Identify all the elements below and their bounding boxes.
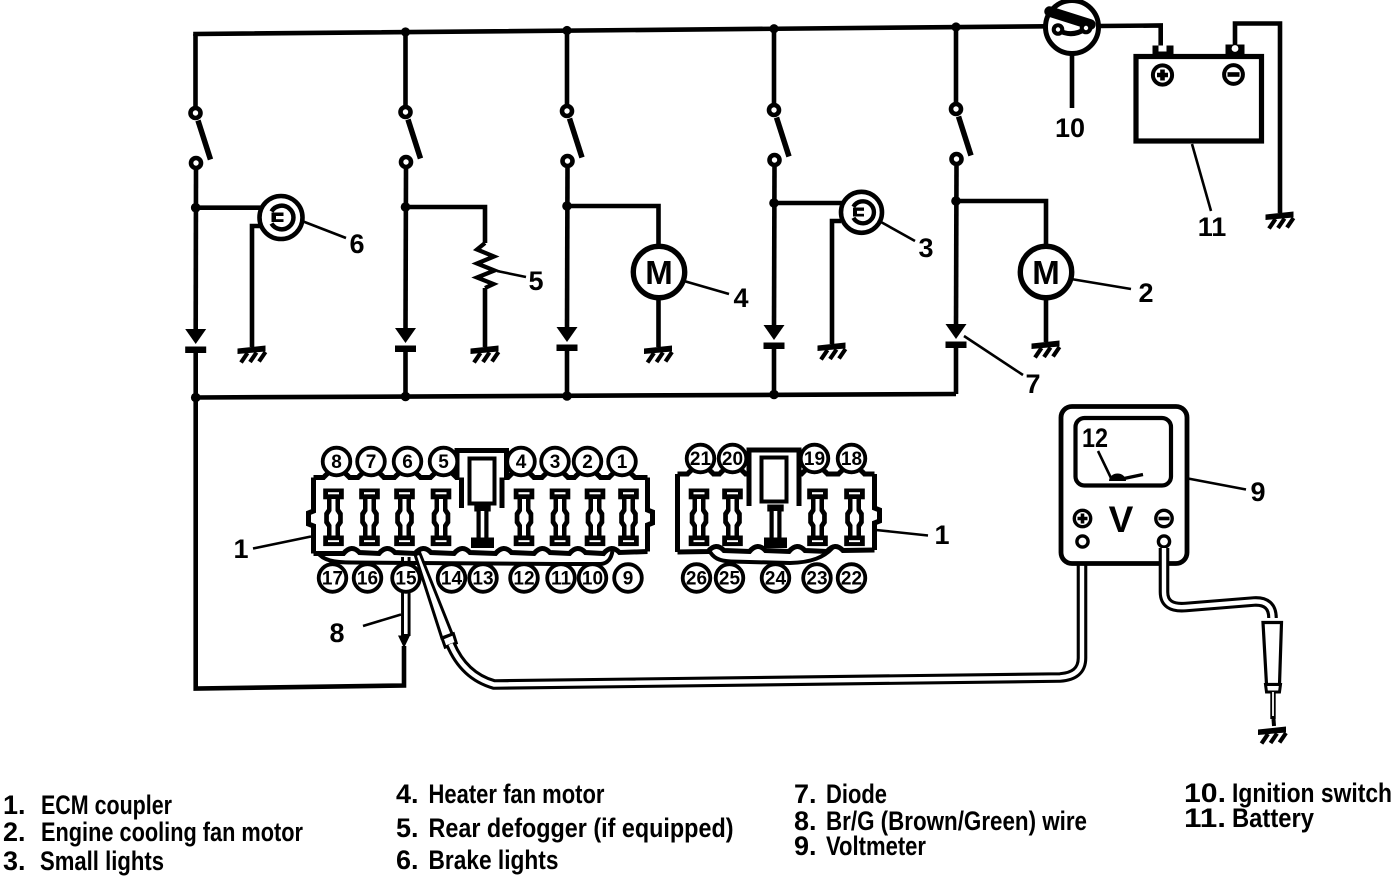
svg-text:5.: 5.: [396, 813, 419, 843]
svg-text:16: 16: [357, 569, 378, 590]
label 11 leader: [1192, 144, 1211, 211]
svg-text:2: 2: [1138, 278, 1153, 308]
svg-text:7: 7: [1025, 369, 1040, 399]
diode D7: [946, 324, 967, 348]
voltmeter body 9: [1061, 407, 1187, 564]
svg-text:M: M: [1032, 254, 1060, 291]
node junction col4: [769, 198, 779, 208]
svg-text:21: 21: [690, 449, 712, 470]
node junction top bus col3: [562, 26, 571, 35]
svg-text:8: 8: [331, 452, 342, 473]
svg-text:14: 14: [441, 569, 463, 590]
svg-text:V: V: [1109, 499, 1134, 540]
pin 3 top A: [541, 448, 569, 476]
connector B keyway inner: [762, 458, 787, 502]
wire bottom bus: [196, 394, 956, 398]
wire col5 switch to junction and diode 7: [954, 166, 959, 327]
wire col4 top drop: [772, 29, 777, 104]
svg-text:8: 8: [329, 618, 344, 648]
svg-text:13: 13: [472, 569, 493, 590]
svg-text:24: 24: [765, 569, 787, 590]
ground lamp 6: [238, 346, 266, 363]
pin 17 bottom A: [319, 564, 347, 592]
svg-text:11: 11: [1198, 212, 1227, 242]
svg-text:25: 25: [719, 569, 741, 590]
svg-text:Battery: Battery: [1232, 803, 1314, 833]
svg-text:10: 10: [582, 569, 603, 590]
ECM coupler connector block B outline: [678, 450, 875, 474]
pin 5 top A: [430, 448, 458, 476]
node bottom bus col1: [191, 393, 201, 403]
node junction top bus col4: [769, 24, 778, 33]
wire battery negative to ground: [1235, 24, 1280, 214]
switch SW2: [398, 105, 420, 170]
node bottom bus col2: [401, 392, 411, 402]
pin 21 top B: [687, 445, 715, 473]
wire junction to motor 4: [567, 206, 659, 247]
svg-text:Brake lights: Brake lights: [429, 845, 559, 875]
label 9 leader: [1188, 479, 1246, 490]
node junction col2: [401, 202, 411, 212]
Br/G wire arrowhead 8: [398, 636, 410, 649]
label 4 leader: [684, 281, 729, 294]
node junction col1: [191, 203, 201, 213]
ground motor 4: [644, 346, 672, 363]
svg-text:1: 1: [934, 520, 949, 550]
diode D3: [557, 327, 578, 351]
wire left drop from bottom bus: [196, 398, 404, 689]
wire col3 diode to bottom bus: [565, 350, 570, 397]
node bottom bus col4: [769, 390, 779, 400]
voltmeter needle: [1109, 474, 1126, 481]
pin 25 bottom B: [716, 564, 744, 592]
switch SW1: [188, 106, 210, 171]
label 1 right leader: [876, 530, 928, 536]
svg-text:10: 10: [1055, 113, 1085, 143]
svg-text:7: 7: [366, 452, 377, 473]
wire col1 diode to bottom bus: [193, 352, 198, 398]
wire col5 top drop: [954, 27, 959, 103]
wire col1 switch to junction: [193, 170, 198, 332]
wire motor 4 to ground: [656, 298, 661, 348]
node junction col5: [951, 196, 961, 206]
wire top bus right segment to battery positive: [1099, 26, 1161, 48]
switch SW5: [949, 102, 971, 167]
svg-text:4: 4: [733, 283, 748, 313]
lamp L3 small light: [841, 192, 882, 233]
label 8 leader: [363, 615, 401, 627]
ground battery: [1266, 212, 1294, 229]
connector A terminals: [323, 489, 344, 500]
svg-text:23: 23: [806, 569, 827, 590]
voltmeter plus terminal: [1074, 510, 1090, 547]
svg-text:9.: 9.: [794, 831, 817, 861]
label 3 leader: [881, 222, 915, 241]
svg-text:1: 1: [233, 534, 248, 564]
svg-text:26: 26: [686, 569, 707, 590]
pin 9 bottom A: [614, 564, 642, 592]
node bottom bus col3: [562, 391, 572, 401]
ignition switch S1 symbol: [1046, 1, 1099, 54]
svg-text:4: 4: [516, 452, 527, 473]
switch SW3: [560, 104, 582, 169]
wire junction to lamp 6: [196, 205, 262, 210]
pin 2 top A: [574, 448, 602, 476]
svg-text:1: 1: [617, 452, 628, 473]
svg-text:Rear defogger (if equipped): Rear defogger (if equipped): [429, 813, 734, 843]
node junction top bus col2: [401, 27, 410, 36]
svg-text:9: 9: [623, 569, 634, 590]
svg-text:3: 3: [550, 452, 561, 473]
svg-text:3: 3: [918, 233, 933, 263]
pin 6 top A: [394, 448, 422, 476]
pin 7 top A: [357, 448, 385, 476]
connector B terminals: [689, 489, 710, 500]
svg-text:5: 5: [438, 452, 449, 473]
pin 22 bottom B: [838, 564, 866, 592]
label 2 leader: [1071, 279, 1131, 289]
pin 18 top B: [838, 445, 866, 473]
wire col4 switch to junction and diode: [772, 167, 777, 328]
pin 8 top A: [323, 448, 351, 476]
svg-text:3.: 3.: [3, 846, 26, 876]
voltmeter minus terminal: [1156, 510, 1172, 547]
lamp L6 brake light: [260, 196, 303, 239]
wire col1 top drop: [193, 34, 198, 107]
node junction col3: [562, 201, 572, 211]
pin 15 bottom A: [392, 564, 420, 592]
label 7 leader: [964, 336, 1023, 375]
svg-text:2.: 2.: [3, 817, 26, 847]
svg-text:11.: 11.: [1184, 803, 1226, 833]
svg-text:Engine cooling fan motor: Engine cooling fan motor: [41, 817, 303, 847]
pin 13 bottom A: [469, 564, 497, 592]
diode D2: [395, 328, 416, 352]
svg-text:4.: 4.: [396, 779, 419, 809]
pin 10 bottom A: [579, 564, 607, 592]
connector B bottom lip: [709, 548, 833, 563]
motor M2 engine cooling fan: [1020, 246, 1071, 297]
pin 26 bottom B: [683, 564, 711, 592]
svg-text:6.: 6.: [396, 845, 419, 875]
wire junction to lamp 3: [774, 201, 843, 206]
motor M4 heater fan: [633, 246, 684, 297]
pin 14 bottom A: [438, 564, 466, 592]
svg-text:1.: 1.: [3, 790, 26, 820]
wire col4 diode to bottom bus: [772, 348, 777, 395]
wire col2 top drop: [403, 32, 408, 106]
battery B1: [1136, 45, 1262, 142]
wire voltmeter positive lead: [451, 548, 1083, 685]
wire col3 switch to junction and diode: [565, 168, 570, 330]
connector A keyway inner: [470, 459, 495, 504]
pin 19 top B: [801, 445, 829, 473]
Br/G wire 8 hollow from pin 15: [401, 557, 411, 636]
label 1 left leader: [253, 537, 311, 549]
svg-text:15: 15: [395, 569, 417, 590]
svg-text:Heater fan motor: Heater fan motor: [429, 779, 605, 809]
ground lamp 3: [818, 343, 846, 360]
diode D1: [185, 329, 206, 353]
wire col5 diode to bottom bus: [954, 347, 959, 395]
node junction top bus col5: [951, 22, 960, 31]
wire voltmeter negative lead: [1164, 548, 1273, 618]
diode D4: [764, 325, 785, 349]
label 6 leader: [302, 221, 346, 238]
wire top bus left segment: [196, 26, 1047, 36]
wire lamp 6 to ground: [252, 226, 260, 347]
svg-text:20: 20: [722, 449, 743, 470]
svg-text:Voltmeter: Voltmeter: [826, 831, 926, 861]
wire junction to motor 2: [956, 201, 1046, 247]
pin 11 bottom A: [547, 564, 575, 592]
svg-text:12: 12: [1082, 423, 1108, 453]
resistor R5 rear defogger: [477, 243, 495, 288]
ground motor 2: [1032, 341, 1060, 358]
pin 1 top A: [608, 448, 636, 476]
wire junction to resistor: [406, 207, 486, 243]
pin 16 bottom A: [354, 564, 382, 592]
svg-text:5: 5: [528, 266, 543, 296]
ECM coupler connector block A outline: [314, 451, 648, 478]
svg-text:6: 6: [402, 452, 413, 473]
switch SW4: [767, 103, 789, 168]
svg-text:17: 17: [322, 569, 343, 590]
svg-text:2: 2: [582, 452, 593, 473]
label 12 leader to needle: [1098, 451, 1111, 478]
voltmeter negative test probe: [1263, 623, 1282, 727]
voltmeter positive test probe at pin 15: [415, 553, 456, 647]
svg-text:ECM coupler: ECM coupler: [41, 790, 172, 820]
wire col2 switch to junction and diode: [403, 169, 408, 331]
pin 24 bottom B: [762, 564, 790, 592]
svg-text:22: 22: [841, 569, 862, 590]
wire resistor to ground: [483, 288, 488, 347]
svg-text:18: 18: [841, 449, 862, 470]
ground resistor: [471, 346, 499, 363]
label 5 leader: [497, 271, 526, 277]
svg-text:7.: 7.: [794, 779, 817, 809]
svg-text:12: 12: [513, 569, 534, 590]
svg-text:Diode: Diode: [826, 779, 887, 809]
svg-text:Small lights: Small lights: [40, 846, 164, 876]
svg-text:M: M: [645, 254, 673, 291]
ground negative probe: [1258, 727, 1286, 744]
wire col2 diode to bottom bus: [403, 351, 408, 397]
wire ignition switch stub down: [1070, 54, 1075, 108]
pin 23 bottom B: [803, 564, 831, 592]
pin 20 top B: [719, 445, 747, 473]
wire col3 top drop: [565, 31, 570, 105]
wire motor 2 to ground: [1044, 298, 1049, 343]
wire lamp 3 to ground: [832, 221, 841, 344]
svg-text:19: 19: [804, 449, 825, 470]
pin 4 top A: [507, 448, 535, 476]
svg-text:11: 11: [551, 569, 572, 590]
connector A bottom lip: [317, 551, 613, 564]
svg-text:9: 9: [1250, 477, 1265, 507]
svg-text:6: 6: [349, 229, 364, 259]
pin 12 bottom A: [510, 564, 538, 592]
